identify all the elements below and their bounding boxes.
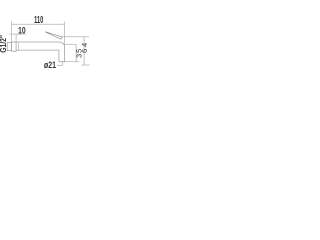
extension line top of 64 dim: [62, 36, 89, 38]
body arm with rounded cap and outlet nozzle: [16, 42, 65, 62]
dimension line 110: [12, 23, 65, 25]
wire: extension line right of 110 dim: [64, 22, 66, 45]
extension line top of 35 dim: [63, 43, 76, 45]
background: [0, 0, 90, 90]
arrowheads 35: [75, 44, 76, 61]
svg-text:110: 110: [34, 15, 44, 26]
extension line bottom of 64 dim: [82, 64, 90, 66]
arrowheads 64: [83, 37, 84, 65]
svg-text:ø21: ø21: [44, 60, 56, 70]
wire: extension line left of 110/10 dims at wall face: [11, 22, 13, 42]
wall flange: [12, 42, 17, 51]
extension tick 10 dim: [15, 34, 17, 42]
arrowheads 10: [9, 34, 18, 35]
dimension line 10: [12, 33, 27, 35]
lever handle wedge: [46, 32, 63, 39]
leader line phi21: [57, 62, 62, 65]
collar ring line: [18, 42, 20, 50]
svg-text:64: 64: [80, 41, 89, 53]
extension line bottom of 35 dim (nozzle bottom extended): [65, 61, 80, 63]
svg-text:10: 10: [18, 25, 26, 35]
svg-text:G1/2": G1/2": [0, 34, 8, 52]
dimension line 35: [75, 44, 77, 61]
dimension line 64: [83, 37, 85, 65]
arrowheads 110: [12, 24, 65, 25]
arrowhead phi21 leader: [62, 62, 63, 64]
G1/2 threaded stub: [7, 43, 11, 51]
